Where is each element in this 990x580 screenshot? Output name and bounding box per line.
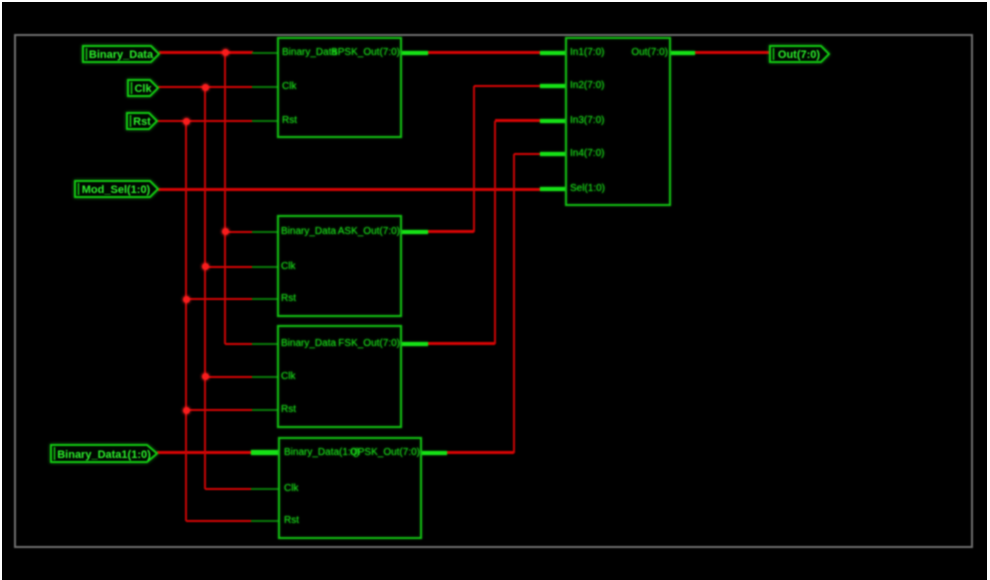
svg-text:Binary_Data1(1:0): Binary_Data1(1:0)	[57, 449, 151, 461]
svg-text:Rst: Rst	[133, 116, 151, 128]
svg-text:Mod_Sel(1:0): Mod_Sel(1:0)	[82, 184, 151, 196]
svg-text:Clk: Clk	[134, 83, 152, 95]
svg-text:Out(7:0): Out(7:0)	[778, 49, 821, 61]
svg-text:Binary_Data: Binary_Data	[89, 49, 154, 61]
